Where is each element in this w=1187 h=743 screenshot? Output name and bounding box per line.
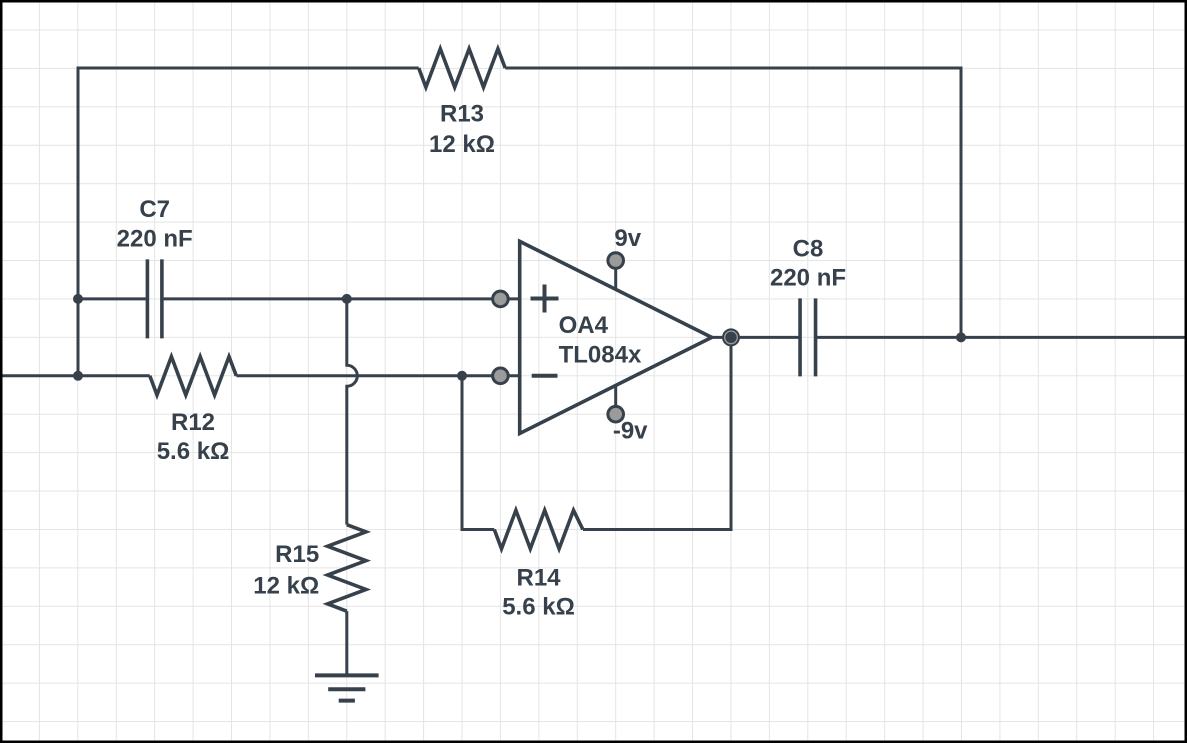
capacitor C8 (800, 298, 816, 376)
wire -9v stub (614, 385, 617, 414)
resistor R12 (150, 357, 237, 395)
wire C7 to non-inverting input (162, 297, 520, 300)
svg-text:5.6 kΩ: 5.6 kΩ (502, 593, 575, 620)
wire input row from left edge (0, 374, 150, 377)
resistor R13 (419, 49, 506, 87)
resistor R15 (328, 525, 366, 612)
ground (315, 675, 379, 700)
svg-text:220 nF: 220 nF (770, 265, 846, 292)
node A dot (342, 294, 352, 304)
svg-text:C8: C8 (793, 236, 824, 263)
svg-text:TL084x: TL084x (559, 342, 642, 369)
wire top feedback right segment (505, 68, 961, 337)
capacitor C7 (147, 259, 162, 338)
terminal inverting input (493, 368, 509, 384)
node dot left input row (73, 371, 83, 381)
svg-text:5.6 kΩ: 5.6 kΩ (157, 438, 230, 465)
svg-text:12 kΩ: 12 kΩ (429, 131, 495, 158)
svg-text:220 nF: 220 nF (117, 226, 193, 253)
svg-text:12 kΩ: 12 kΩ (253, 573, 319, 600)
wire C8 to right edge (816, 336, 1187, 339)
svg-text:-9v: -9v (613, 417, 648, 444)
svg-text:R13: R13 (440, 101, 484, 128)
svg-text:9v: 9v (614, 225, 641, 252)
svg-text:C7: C7 (139, 196, 170, 223)
svg-text:R12: R12 (171, 409, 215, 436)
wire node A vertical with hop over input row (347, 299, 358, 525)
wire output to C8 (712, 336, 800, 339)
op-amp OA4 triangle (520, 241, 712, 433)
wire plus row from left vertical to C7 (78, 297, 147, 300)
svg-text:OA4: OA4 (559, 312, 609, 339)
terminal output with junction dot (722, 328, 740, 346)
svg-text:R15: R15 (275, 541, 319, 568)
wire feedback R14 loop (583, 337, 731, 529)
op-amp plus input symbol (531, 285, 559, 313)
terminal -9v supply (608, 406, 624, 422)
node dot output feedback junction (956, 332, 966, 342)
wire 9v stub (614, 261, 617, 290)
op-amp minus input symbol (532, 374, 558, 378)
svg-text:R14: R14 (516, 565, 561, 592)
resistor R14 (494, 510, 583, 548)
terminal 9v supply (608, 253, 624, 269)
node dot inverting feedback junction (457, 371, 467, 381)
wire R12 to inverting input (236, 374, 519, 377)
wire R14 to inverting node (462, 376, 494, 530)
wire top feedback left segment (78, 68, 419, 376)
node dot left plus row (73, 294, 83, 304)
terminal non-inverting input (493, 291, 509, 307)
wire R15 to ground (345, 611, 348, 675)
